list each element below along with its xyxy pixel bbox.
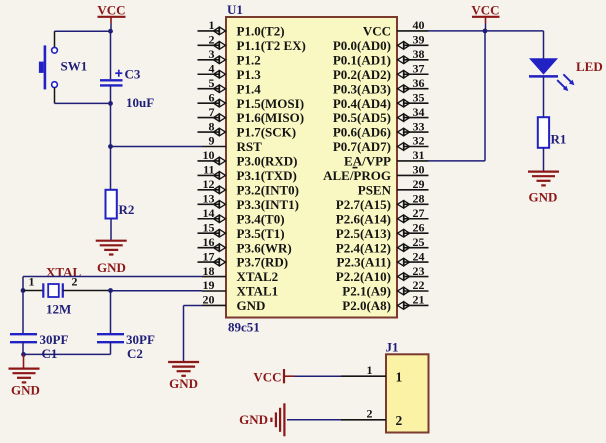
pin 10 line (198, 160, 227, 162)
pin 8 line (198, 131, 227, 133)
wire pin20 to ground (184, 305, 203, 361)
IC U1 89c51 body (226, 17, 397, 318)
svg-text:R1: R1 (551, 132, 567, 147)
wire pin40 to LED branch (429, 30, 544, 32)
power VCC (J1) (253, 369, 294, 385)
svg-text:GND: GND (169, 376, 198, 391)
pin 38 line (397, 59, 429, 61)
svg-text:C2: C2 (127, 346, 143, 361)
pin 14 arrow (214, 215, 226, 223)
svg-text:P3.1(TXD): P3.1(TXD) (237, 168, 297, 183)
wire XTAL1 net to pin 19 (111, 290, 203, 292)
pin 24 line (397, 261, 429, 263)
pin 16 line (198, 247, 227, 249)
switch SW1 (39, 45, 57, 89)
svg-text:ALE/PROG: ALE/PROG (323, 168, 391, 183)
pin 5 line (198, 88, 227, 90)
svg-text:LED: LED (576, 59, 603, 74)
svg-text:P2.5(A13): P2.5(A13) (336, 226, 391, 241)
svg-text:P2.0(A8): P2.0(A8) (342, 298, 391, 313)
pin 14 line (198, 218, 227, 220)
svg-text:C3: C3 (125, 67, 141, 82)
J1 pin 2 line (341, 419, 386, 421)
wire crystal right to node (63, 290, 111, 292)
svg-text:J1: J1 (386, 340, 399, 355)
pin 27 arrow (398, 215, 410, 223)
LED D1 (529, 58, 574, 91)
svg-text:P2.3(A11): P2.3(A11) (336, 255, 391, 270)
svg-text:39: 39 (413, 33, 425, 47)
pin 4 line (198, 73, 227, 75)
svg-text:22: 22 (413, 278, 425, 292)
power VCC (left) (97, 3, 125, 24)
pin 35 line (397, 102, 429, 104)
pin 27 line (397, 218, 429, 220)
svg-text:P0.6(AD6): P0.6(AD6) (333, 125, 391, 140)
svg-text:89c51: 89c51 (228, 320, 260, 335)
pin 6 arrow (214, 99, 226, 107)
svg-text:30PF: 30PF (40, 332, 69, 347)
wire XTAL2 net (23, 276, 202, 278)
resistor R1 (538, 117, 549, 148)
power VCC (right) (471, 3, 499, 24)
svg-text:20: 20 (203, 293, 215, 307)
svg-text:36: 36 (413, 76, 425, 90)
ground below R2 (96, 241, 127, 255)
pin 19 stub (202, 290, 226, 292)
svg-text:P0.4(AD4): P0.4(AD4) (333, 96, 391, 111)
svg-text:VCC: VCC (363, 24, 391, 39)
svg-text:P1.0(T2): P1.0(T2) (237, 24, 285, 39)
pin 15 arrow (214, 229, 226, 237)
svg-text:31: 31 (413, 148, 425, 162)
svg-text:P2.4(A12): P2.4(A12) (336, 240, 391, 255)
pin 21 arrow (398, 301, 410, 309)
wire left down to crystal (22, 277, 24, 291)
svg-text:P0.0(AD0): P0.0(AD0) (333, 38, 391, 53)
svg-text:GND: GND (11, 383, 40, 398)
wire GND to J1 pin2 (287, 419, 341, 421)
pin 35 arrow (398, 99, 410, 107)
svg-text:VCC: VCC (253, 370, 281, 385)
capacitor C1 (10, 334, 37, 342)
pin 34 arrow (398, 114, 410, 122)
ground below C1 (9, 369, 40, 383)
pin 22 line (397, 290, 429, 292)
pin 11 arrow (214, 171, 226, 179)
pin 28 arrow (398, 200, 410, 208)
pin 24 arrow (398, 258, 410, 266)
node C1-C2 junction (21, 352, 26, 357)
pin 6 line (198, 102, 227, 104)
pin 17 line (198, 261, 227, 263)
wire junction to ground (23, 354, 25, 368)
svg-text:19: 19 (203, 278, 215, 292)
svg-text:P3.5(T1): P3.5(T1) (237, 226, 285, 241)
svg-text:12M: 12M (46, 302, 71, 317)
svg-text:25: 25 (413, 235, 425, 249)
wire R2 to ground (110, 219, 112, 241)
resistor R2 (106, 190, 117, 219)
svg-text:1: 1 (367, 363, 373, 377)
svg-text:18: 18 (203, 264, 215, 278)
svg-text:P0.5(AD5): P0.5(AD5) (333, 110, 391, 125)
capacitor C2 (97, 334, 124, 342)
svg-text:21: 21 (413, 293, 425, 307)
svg-text:P1.3: P1.3 (237, 67, 262, 82)
pin 12 arrow (214, 186, 226, 194)
svg-text:38: 38 (413, 47, 425, 61)
svg-text:1: 1 (29, 275, 35, 289)
node XTAL-left junction (21, 288, 26, 293)
pin 31 stub (397, 160, 429, 162)
pin 18 stub (202, 276, 226, 278)
capacitor C3 (100, 70, 123, 86)
wire node to C1 (22, 291, 24, 334)
pin 16 arrow (214, 244, 226, 252)
pin 17 arrow (214, 258, 226, 266)
pin 8 arrow (214, 128, 226, 136)
pin 3 arrow (214, 56, 226, 64)
pin 11 line (198, 174, 227, 176)
pin 39 arrow (398, 41, 410, 49)
pin 36 arrow (398, 85, 410, 93)
svg-text:P1.6(MISO): P1.6(MISO) (237, 110, 305, 125)
svg-text:30: 30 (413, 163, 425, 177)
svg-text:GND: GND (529, 190, 558, 205)
ground below pin 20 (168, 362, 199, 376)
svg-text:2: 2 (396, 413, 403, 428)
pin 3 line (198, 59, 227, 61)
pin 29 line (397, 189, 429, 191)
svg-text:EA/VPP: EA/VPP (344, 154, 391, 169)
pin 34 line (397, 117, 429, 119)
svg-text:P1.1(T2 EX): P1.1(T2 EX) (237, 38, 306, 53)
svg-text:VCC: VCC (97, 3, 125, 18)
pin 13 arrow (214, 200, 226, 208)
wire node1 to SW1 (55, 30, 111, 32)
pin 25 arrow (398, 244, 410, 252)
pin 7 arrow (214, 114, 226, 122)
svg-text:10: 10 (203, 148, 215, 162)
svg-text:11: 11 (203, 163, 214, 177)
svg-text:SW1: SW1 (61, 58, 88, 73)
svg-text:12: 12 (203, 177, 215, 191)
node B junction (108, 101, 113, 106)
svg-text:P0.7(AD7): P0.7(AD7) (333, 139, 391, 154)
node XTAL-right junction (108, 288, 113, 293)
svg-text:35: 35 (413, 90, 425, 104)
pin 4 arrow (214, 70, 226, 78)
wire VCC to J1 pin1 (295, 375, 342, 377)
svg-text:GND: GND (239, 412, 268, 427)
pin 2 arrow (214, 41, 226, 49)
svg-text:32: 32 (413, 134, 425, 148)
pin 15 line (198, 232, 227, 234)
wire VCC to node1 (110, 24, 112, 32)
svg-text:PSEN: PSEN (358, 182, 392, 197)
wire LED to R1 (543, 76, 545, 117)
svg-text:RST: RST (237, 139, 263, 154)
svg-text:R2: R2 (119, 202, 135, 217)
pin 32 line (397, 146, 429, 148)
svg-text:30PF: 30PF (126, 332, 155, 347)
svg-text:P2.1(A9): P2.1(A9) (342, 284, 391, 299)
svg-text:P3.0(RXD): P3.0(RXD) (237, 154, 298, 169)
pin 2 line (198, 44, 227, 46)
pin 30 line (397, 174, 429, 176)
pin 1 line (198, 30, 227, 32)
crystal X1 12M (43, 283, 63, 297)
svg-text:14: 14 (203, 206, 215, 220)
node RST junction (108, 144, 113, 149)
svg-text:P0.2(AD2): P0.2(AD2) (333, 67, 391, 82)
svg-text:33: 33 (413, 119, 425, 133)
pin 5 arrow (214, 85, 226, 93)
pin 36 line (397, 88, 429, 90)
svg-text:XTAL1: XTAL1 (237, 284, 279, 299)
svg-text:40: 40 (413, 18, 425, 32)
svg-text:U1: U1 (227, 2, 243, 17)
pin 40 stub (397, 30, 429, 32)
wire VCC stub down (485, 24, 487, 31)
svg-text:P0.1(AD1): P0.1(AD1) (333, 52, 391, 67)
wire node B to node RST (110, 103, 112, 146)
svg-text:2: 2 (72, 275, 78, 289)
pin 25 line (397, 247, 429, 249)
wire R1 to ground (543, 148, 545, 171)
svg-text:VCC: VCC (471, 3, 499, 18)
svg-text:16: 16 (203, 235, 215, 249)
ground at J1 (rotated) (271, 403, 284, 436)
svg-text:29: 29 (413, 177, 425, 191)
pin 13 line (198, 203, 227, 205)
pin 37 line (397, 73, 429, 75)
pin 9 stub (202, 146, 226, 148)
pin 32 arrow (398, 143, 410, 151)
svg-text:P0.3(AD3): P0.3(AD3) (333, 81, 391, 96)
pin 12 line (198, 189, 227, 191)
pin 23 arrow (398, 273, 410, 281)
pin 33 arrow (398, 128, 410, 136)
svg-text:34: 34 (413, 105, 425, 119)
svg-text:P3.4(T0): P3.4(T0) (237, 211, 285, 226)
svg-text:26: 26 (413, 220, 425, 234)
J1 pin 1 line (341, 375, 386, 377)
wire down to LED (543, 31, 545, 59)
connector J1 body (386, 354, 429, 432)
pin 23 line (397, 276, 429, 278)
pin 26 arrow (398, 229, 410, 237)
wire node to C2 (110, 291, 112, 334)
svg-text:P3.3(INT1): P3.3(INT1) (237, 197, 299, 212)
svg-text:15: 15 (203, 220, 215, 234)
wire VCC node down to EA (484, 31, 486, 161)
overline mark on ALE/PROG (353, 167, 358, 169)
wire EA to pin 31 (429, 160, 486, 162)
svg-text:GND: GND (97, 260, 126, 275)
pin 38 arrow (398, 56, 410, 64)
svg-text:24: 24 (413, 249, 425, 263)
pin 39 line (397, 44, 429, 46)
svg-text:C1: C1 (42, 346, 58, 361)
node VCC junction (483, 29, 488, 34)
wire SW1 top pin (54, 31, 56, 47)
svg-text:1: 1 (396, 370, 403, 385)
wire C1 down (22, 342, 24, 354)
svg-text:P1.2: P1.2 (237, 52, 261, 67)
wire node1 to C3 (110, 31, 112, 79)
svg-text:37: 37 (413, 61, 425, 75)
svg-text:P2.2(A10): P2.2(A10) (336, 269, 391, 284)
svg-text:P1.5(MOSI): P1.5(MOSI) (237, 96, 305, 111)
wire C1 to C2 bottom (24, 353, 111, 355)
pin 10 arrow (214, 157, 226, 165)
svg-text:P3.7(RD): P3.7(RD) (237, 255, 289, 270)
pin 20 stub (202, 304, 226, 306)
svg-text:28: 28 (413, 192, 425, 206)
ground below R1 (528, 172, 559, 186)
pin 26 line (397, 232, 429, 234)
svg-text:P3.6(WR): P3.6(WR) (237, 240, 292, 255)
pin 33 line (397, 131, 429, 133)
pin 22 arrow (398, 287, 410, 295)
pin 1 arrow (214, 27, 226, 35)
svg-text:P1.4: P1.4 (237, 81, 262, 96)
svg-text:XTAL2: XTAL2 (237, 269, 279, 284)
svg-text:GND: GND (237, 298, 266, 313)
svg-text:27: 27 (413, 206, 425, 220)
wire SW1 to node B (55, 102, 111, 104)
svg-text:P2.7(A15): P2.7(A15) (336, 197, 391, 212)
wire to crystal left (23, 290, 43, 292)
wire node RST to R2 (110, 147, 112, 190)
svg-text:P1.7(SCK): P1.7(SCK) (237, 125, 297, 140)
pin 28 line (397, 203, 429, 205)
pin 7 line (198, 117, 227, 119)
svg-text:9: 9 (209, 134, 215, 148)
wire C3 to node B (110, 85, 112, 103)
svg-text:P2.6(A14): P2.6(A14) (336, 211, 391, 226)
pin 21 line (397, 304, 429, 306)
svg-text:P3.2(INT0): P3.2(INT0) (237, 182, 299, 197)
svg-text:13: 13 (203, 192, 215, 206)
svg-text:10uF: 10uF (126, 95, 154, 110)
wire SW1 bottom pin (54, 88, 56, 104)
wire RST net to pin 9 (111, 146, 203, 148)
wire C2 up (110, 342, 112, 354)
svg-text:17: 17 (203, 249, 215, 263)
svg-text:23: 23 (413, 264, 425, 278)
svg-text:2: 2 (367, 406, 373, 420)
pin 37 arrow (398, 70, 410, 78)
node A junction (108, 29, 113, 34)
